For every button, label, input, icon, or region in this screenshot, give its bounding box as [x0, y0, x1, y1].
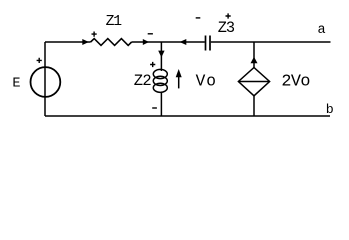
wire left branch vertical — [44, 42, 46, 116]
plus sign above Z3 — [226, 13, 231, 18]
arrowhead current into Z2 — [158, 51, 164, 58]
arrowhead of dependent current source — [251, 57, 258, 63]
wire Z2 branch lower — [160, 92, 162, 116]
svg-text:b: b — [326, 102, 334, 117]
svg-text:Vo: Vo — [196, 73, 217, 91]
wire dependent source lower — [253, 96, 255, 116]
svg-text:Z2: Z2 — [134, 72, 152, 90]
dependent source 2Vo diamond — [238, 68, 269, 96]
wire Z2 branch upper — [160, 42, 162, 71]
arrow Vo reference — [178, 74, 180, 88]
inductor Z2 — [153, 69, 167, 78]
wire top rail middle segment — [132, 41, 205, 43]
wire dependent source upper — [253, 42, 255, 68]
svg-text:a: a — [318, 23, 326, 38]
minus sign left of Z3 — [196, 17, 201, 19]
wire bottom rail — [45, 115, 330, 117]
wire top rail left segment — [45, 41, 91, 43]
plus sign left of Z1 — [92, 32, 97, 37]
arrowhead current into Z1 — [82, 39, 89, 45]
minus sign right of Z1 — [148, 33, 153, 35]
minus sign below Z2 — [152, 107, 157, 109]
wire top rail right segment — [211, 41, 331, 43]
diamond chord — [238, 81, 269, 83]
svg-text:2Vo: 2Vo — [281, 73, 309, 92]
source E — [31, 67, 61, 97]
svg-text:Z3: Z3 — [218, 19, 235, 37]
resistor Z1 — [91, 39, 132, 46]
svg-text:E: E — [12, 76, 20, 91]
plus sign above E — [37, 58, 42, 63]
capacitor Z3 — [205, 36, 207, 51]
plus sign above Z2 — [150, 62, 155, 67]
arrowhead after Z1 — [143, 39, 149, 45]
svg-text:Z1: Z1 — [106, 14, 123, 30]
arrowhead from Z3 toward node — [180, 39, 187, 45]
